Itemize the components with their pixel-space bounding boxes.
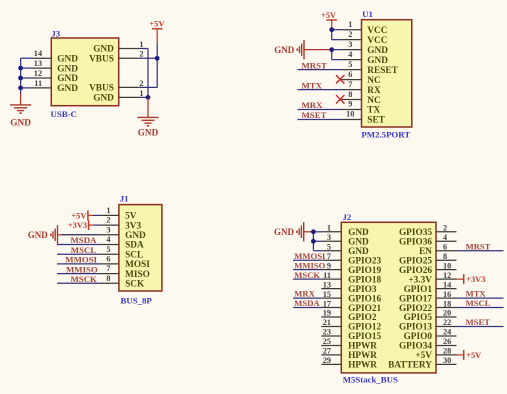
svg-text:GND: GND xyxy=(57,84,78,94)
svg-text:TX: TX xyxy=(367,106,380,116)
svg-text:20: 20 xyxy=(443,309,451,318)
svg-text:GND: GND xyxy=(138,127,159,137)
svg-text:BUS_8P: BUS_8P xyxy=(121,295,153,305)
svg-text:RX: RX xyxy=(367,86,381,96)
svg-text:J1: J1 xyxy=(120,194,129,204)
svg-text:3V3: 3V3 xyxy=(125,221,141,231)
svg-text:12: 12 xyxy=(443,271,451,280)
svg-text:GND: GND xyxy=(93,45,114,55)
svg-text:14: 14 xyxy=(34,49,42,58)
svg-text:U1: U1 xyxy=(362,9,373,19)
svg-text:1: 1 xyxy=(327,224,331,233)
svg-text:8: 8 xyxy=(106,274,110,283)
svg-text:+3V3: +3V3 xyxy=(68,221,87,230)
svg-text:29: 29 xyxy=(323,356,331,365)
svg-text:GND: GND xyxy=(57,74,78,84)
svg-text:1: 1 xyxy=(139,40,143,49)
svg-text:VCC: VCC xyxy=(367,26,387,36)
svg-text:8: 8 xyxy=(348,90,352,99)
svg-text:11: 11 xyxy=(323,271,331,280)
svg-text:2: 2 xyxy=(348,30,352,39)
svg-text:MMOSI: MMOSI xyxy=(65,255,97,265)
svg-text:MMISO: MMISO xyxy=(66,264,98,274)
svg-text:MSCL: MSCL xyxy=(466,298,491,308)
svg-text:22: 22 xyxy=(443,318,451,327)
svg-text:USB-C: USB-C xyxy=(51,109,77,119)
svg-text:25: 25 xyxy=(323,337,331,346)
svg-text:11: 11 xyxy=(34,79,42,88)
svg-text:9: 9 xyxy=(327,261,331,270)
svg-text:15: 15 xyxy=(323,290,331,299)
svg-text:GND: GND xyxy=(57,64,78,74)
svg-text:MRST: MRST xyxy=(302,60,328,70)
svg-text:SCL: SCL xyxy=(125,250,143,260)
svg-text:GND: GND xyxy=(274,45,295,55)
svg-text:HPWR: HPWR xyxy=(348,361,377,371)
svg-text:MTX: MTX xyxy=(302,80,323,90)
svg-text:VCC: VCC xyxy=(367,36,387,46)
svg-text:26: 26 xyxy=(443,337,451,346)
svg-text:NC: NC xyxy=(367,96,380,106)
svg-text:VBUS: VBUS xyxy=(89,55,114,65)
svg-text:12: 12 xyxy=(34,69,42,78)
svg-text:7: 7 xyxy=(106,264,110,273)
svg-text:MSDA: MSDA xyxy=(71,235,98,245)
svg-text:1: 1 xyxy=(348,20,352,29)
svg-text:GND: GND xyxy=(10,119,31,129)
svg-text:10: 10 xyxy=(346,110,354,119)
svg-text:10: 10 xyxy=(443,261,451,270)
svg-text:MRST: MRST xyxy=(466,241,491,251)
svg-text:SDA: SDA xyxy=(125,241,144,251)
svg-text:5: 5 xyxy=(106,245,110,254)
svg-text:7: 7 xyxy=(327,252,331,261)
svg-text:NC: NC xyxy=(367,76,380,86)
svg-text:21: 21 xyxy=(323,318,331,327)
svg-text:5: 5 xyxy=(327,242,331,251)
svg-text:23: 23 xyxy=(323,328,331,337)
svg-text:6: 6 xyxy=(443,242,447,251)
svg-text:2: 2 xyxy=(106,216,110,225)
svg-text:GND: GND xyxy=(93,94,114,104)
svg-text:M5Stack_BUS: M5Stack_BUS xyxy=(343,374,398,384)
svg-text:BATTERY: BATTERY xyxy=(388,361,432,371)
svg-text:GND: GND xyxy=(274,227,295,237)
svg-text:1: 1 xyxy=(106,206,110,215)
svg-text:3: 3 xyxy=(348,40,352,49)
svg-text:4: 4 xyxy=(106,235,110,244)
svg-text:+5V: +5V xyxy=(71,211,86,220)
svg-text:13: 13 xyxy=(323,280,331,289)
svg-text:PM2.5PORT: PM2.5PORT xyxy=(361,130,410,140)
svg-text:7: 7 xyxy=(348,80,352,89)
svg-text:3: 3 xyxy=(327,233,331,242)
svg-text:GND: GND xyxy=(125,231,146,241)
svg-text:14: 14 xyxy=(443,280,451,289)
svg-text:8: 8 xyxy=(443,252,447,261)
svg-text:MSET: MSET xyxy=(302,110,327,120)
svg-text:5: 5 xyxy=(348,60,352,69)
svg-text:30: 30 xyxy=(443,356,451,365)
svg-text:16: 16 xyxy=(443,290,451,299)
svg-text:J3: J3 xyxy=(51,28,60,38)
svg-text:6: 6 xyxy=(348,70,352,79)
svg-text:4: 4 xyxy=(443,233,447,242)
svg-text:6: 6 xyxy=(106,255,110,264)
svg-text:MSCK: MSCK xyxy=(71,274,98,284)
svg-text:27: 27 xyxy=(323,347,331,356)
svg-text:+5V: +5V xyxy=(466,351,481,360)
svg-text:+5V: +5V xyxy=(321,11,336,20)
svg-text:5V: 5V xyxy=(125,212,137,222)
svg-text:RESET: RESET xyxy=(367,66,398,76)
svg-text:SET: SET xyxy=(367,116,385,126)
svg-text:17: 17 xyxy=(323,299,331,308)
svg-text:2: 2 xyxy=(139,79,143,88)
svg-text:18: 18 xyxy=(443,299,451,308)
svg-text:GND: GND xyxy=(367,56,388,66)
svg-text:GND: GND xyxy=(28,230,49,240)
svg-text:MSET: MSET xyxy=(466,317,491,327)
svg-text:GND: GND xyxy=(367,46,388,56)
svg-text:+3V3: +3V3 xyxy=(466,275,485,284)
svg-text:9: 9 xyxy=(348,100,352,109)
svg-text:VBUS: VBUS xyxy=(89,84,114,94)
svg-text:MSDA: MSDA xyxy=(294,298,320,308)
svg-text:SCK: SCK xyxy=(125,280,145,290)
svg-text:4: 4 xyxy=(348,50,352,59)
svg-text:+5V: +5V xyxy=(149,20,164,29)
svg-text:3: 3 xyxy=(106,225,110,234)
svg-text:MOSI: MOSI xyxy=(125,260,150,270)
svg-text:GND: GND xyxy=(57,54,78,64)
svg-text:1: 1 xyxy=(139,89,143,98)
svg-text:MISO: MISO xyxy=(125,270,150,280)
svg-text:MRX: MRX xyxy=(302,100,324,110)
svg-text:24: 24 xyxy=(443,328,451,337)
svg-text:J2: J2 xyxy=(343,212,352,222)
svg-text:MSCK: MSCK xyxy=(294,270,320,280)
svg-text:2: 2 xyxy=(139,50,143,59)
svg-text:19: 19 xyxy=(323,309,331,318)
svg-text:2: 2 xyxy=(443,224,447,233)
svg-text:MSCL: MSCL xyxy=(71,245,97,255)
svg-text:28: 28 xyxy=(443,347,451,356)
svg-text:13: 13 xyxy=(34,59,42,68)
